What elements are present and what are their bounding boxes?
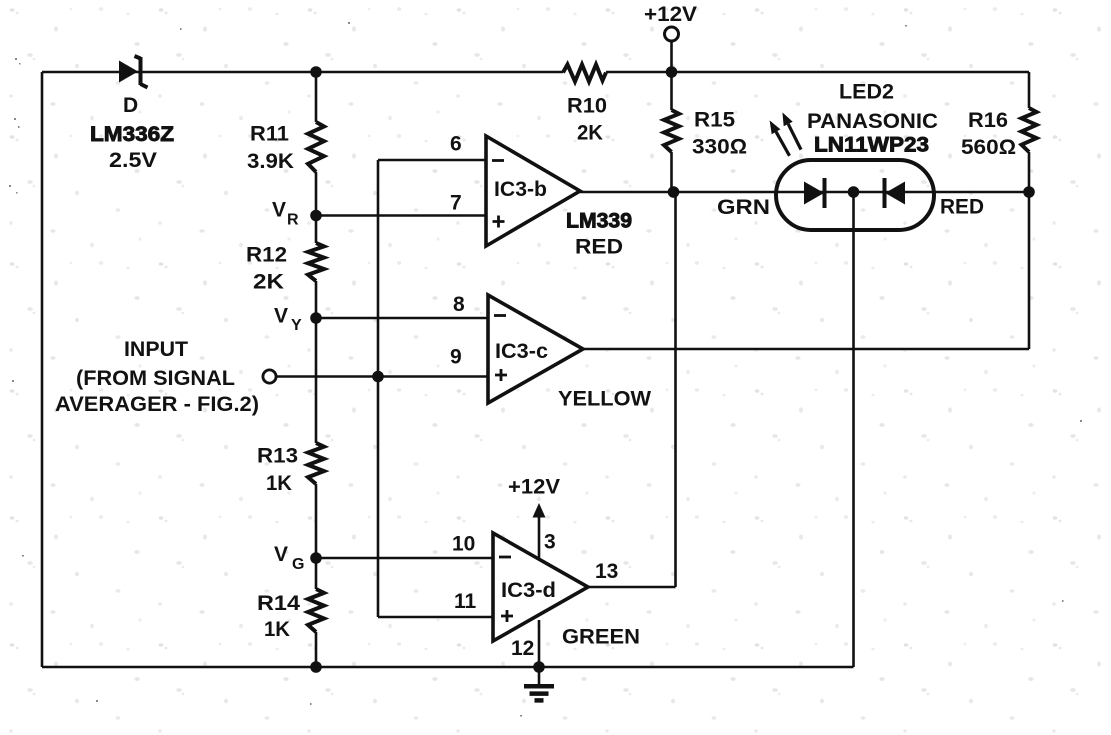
svg-text:YELLOW: YELLOW <box>558 388 651 411</box>
node VR label <box>272 199 299 229</box>
wire VY to pin 8 <box>316 317 488 320</box>
wire IC3-c output to right border <box>583 348 1029 351</box>
wire IC3-d pin 12 to ground <box>538 620 541 667</box>
svg-text:IC3-c: IC3-c <box>495 340 548 363</box>
svg-text:(FROM SIGNAL: (FROM SIGNAL <box>76 367 235 390</box>
svg-text:Y: Y <box>291 317 302 334</box>
wire top rail left segment <box>42 71 563 74</box>
svg-text:PANASONIC: PANASONIC <box>807 110 938 133</box>
LED red element <box>885 178 985 219</box>
svg-text:RED: RED <box>940 196 984 219</box>
resistor R11 3.9K <box>247 122 324 173</box>
svg-text:V: V <box>274 305 288 328</box>
svg-text:G: G <box>292 556 304 573</box>
node VG label <box>274 543 304 573</box>
wire bottom rail <box>42 666 854 669</box>
svg-text:LED2: LED2 <box>839 81 894 104</box>
svg-text:6: 6 <box>450 133 462 156</box>
svg-text:330Ω: 330Ω <box>692 136 747 159</box>
junction +12V rail <box>666 66 678 78</box>
junction ladder bottom <box>310 661 322 673</box>
wire ladder vertical <box>315 72 318 667</box>
wire right border <box>1028 72 1031 349</box>
svg-text:R13: R13 <box>257 445 298 468</box>
ground <box>524 667 554 700</box>
svg-text:2K: 2K <box>577 122 603 145</box>
junction VR <box>310 210 322 222</box>
svg-text:3: 3 <box>544 531 556 554</box>
svg-text:R12: R12 <box>246 244 287 267</box>
svg-text:R16: R16 <box>968 109 1008 132</box>
svg-text:R14: R14 <box>257 592 300 615</box>
svg-text:AVERAGER - FIG.2): AVERAGER - FIG.2) <box>55 393 259 416</box>
svg-text:IC3-d: IC3-d <box>501 579 556 602</box>
wire VG to pin 10 <box>316 557 493 560</box>
svg-text:1K: 1K <box>266 472 292 495</box>
svg-text:12: 12 <box>511 637 534 660</box>
wire input bus to pin 11 <box>378 616 493 619</box>
svg-text:D: D <box>123 94 138 117</box>
svg-text:+12V: +12V <box>508 476 560 499</box>
wire input to pin 9 <box>277 375 489 378</box>
svg-text:R15: R15 <box>694 109 735 132</box>
op-amp IC3-d <box>452 533 640 661</box>
resistor R14 1K <box>257 589 324 641</box>
svg-text:+12V: +12V <box>644 3 697 26</box>
junction R15 output node <box>668 186 680 198</box>
junction ground <box>533 661 545 673</box>
wire R15 column <box>670 41 673 192</box>
svg-text:10: 10 <box>452 533 475 556</box>
svg-text:R11: R11 <box>250 123 289 146</box>
LED green element <box>717 178 825 219</box>
svg-text:V: V <box>272 199 286 222</box>
junction input bus <box>372 371 384 383</box>
svg-text:GREEN: GREEN <box>562 626 640 649</box>
LED emission arrows <box>770 112 801 155</box>
node VY label <box>274 305 302 335</box>
resistor R12 2K <box>246 243 324 294</box>
svg-text:LN11WP23: LN11WP23 <box>814 134 929 157</box>
svg-text:LM339: LM339 <box>566 210 632 233</box>
junction VY <box>310 312 322 324</box>
wire IC3-b output to LED and R16 <box>580 191 1029 194</box>
junction ladder top <box>310 66 322 78</box>
wire IC3-d output to R15 node <box>588 192 676 587</box>
junction R16 output node <box>1023 186 1035 198</box>
svg-text:V: V <box>274 543 288 566</box>
resistor R13 1K <box>257 443 324 495</box>
LED2 dual LED package outline <box>776 81 938 231</box>
svg-text:9: 9 <box>450 346 462 369</box>
wire left border <box>41 72 44 667</box>
svg-text:GRN: GRN <box>717 196 770 219</box>
svg-text:13: 13 <box>595 560 618 583</box>
input terminal <box>55 338 276 416</box>
svg-text:3.9K: 3.9K <box>247 150 294 173</box>
svg-text:INPUT: INPUT <box>124 338 188 361</box>
resistor R16 560ohm <box>961 108 1037 159</box>
+12V supply terminal top <box>644 3 697 41</box>
diode D LM336Z 2.5V <box>90 56 174 172</box>
svg-text:2.5V: 2.5V <box>109 149 157 172</box>
wire LED center to bottom rail <box>852 194 855 667</box>
svg-text:11: 11 <box>454 590 477 613</box>
svg-text:R: R <box>287 212 299 229</box>
op-amp IC3-c <box>450 293 651 411</box>
svg-text:R10: R10 <box>567 95 607 118</box>
junction LED center <box>848 186 860 198</box>
svg-text:7: 7 <box>450 192 462 215</box>
resistor R15 330ohm <box>664 109 747 159</box>
junction VG <box>310 552 322 564</box>
wire pin 6 to input bus <box>378 160 486 617</box>
resistor R10 2K <box>563 65 607 145</box>
svg-text:560Ω: 560Ω <box>961 136 1016 159</box>
svg-text:2K: 2K <box>253 271 284 294</box>
svg-text:RED: RED <box>575 236 623 259</box>
svg-text:8: 8 <box>453 293 465 316</box>
op-amp IC3-b <box>450 133 632 259</box>
wire top rail right segment <box>606 71 1029 74</box>
wire VR to pin 7 <box>316 214 486 217</box>
+12V supply arrow at IC3-d pin 3 <box>508 476 560 559</box>
svg-text:LM336Z: LM336Z <box>90 123 174 146</box>
svg-text:IC3-b: IC3-b <box>494 178 547 201</box>
svg-text:1K: 1K <box>264 618 290 641</box>
